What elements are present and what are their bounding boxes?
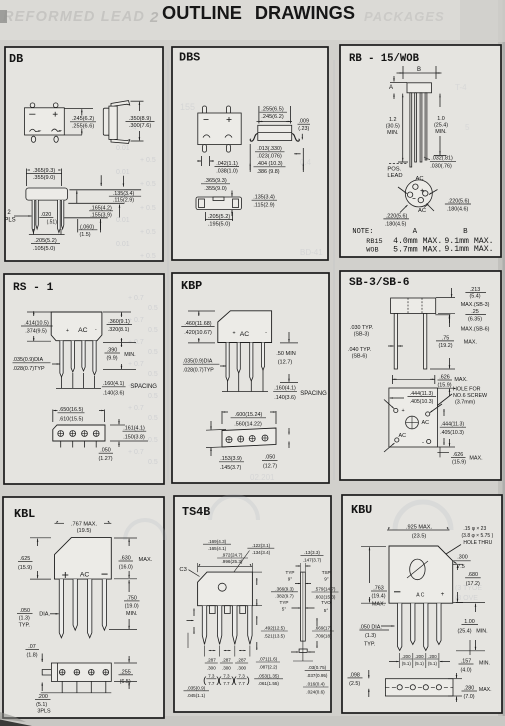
KBL .07 arrows bbox=[41, 654, 43, 663]
DB front line lower extension bbox=[64, 217, 108, 219]
svg-text:-: - bbox=[265, 330, 267, 336]
svg-text:(3.8 φ × 5.75 ): (3.8 φ × 5.75 ) bbox=[462, 533, 494, 539]
TS4B .13 dim arrows bbox=[296, 565, 301, 567]
svg-text:0.5: 0.5 bbox=[148, 437, 158, 444]
svg-text:(6.35): (6.35) bbox=[468, 316, 482, 322]
DB top view plus mark bbox=[53, 113, 58, 115]
svg-text:.460(11.68): .460(11.68) bbox=[184, 321, 211, 327]
svg-text:0.5: 0.5 bbox=[148, 327, 158, 334]
svg-text:0.5: 0.5 bbox=[148, 305, 158, 312]
svg-text:.405(10.3): .405(10.3) bbox=[410, 399, 434, 405]
svg-text:): ) bbox=[247, 675, 250, 686]
svg-text:(17.2): (17.2) bbox=[466, 581, 480, 587]
SB .75 dim arrows bbox=[449, 314, 451, 327]
DB dim (.060) leader lines bbox=[77, 219, 79, 232]
DB top view minus mark bbox=[29, 113, 35, 115]
svg-text:2: 2 bbox=[149, 9, 159, 26]
RS1 bottom view body bbox=[53, 425, 105, 441]
svg-text:NO.6 SCREW: NO.6 SCREW bbox=[453, 393, 488, 399]
DB front dim ticks bbox=[26, 169, 28, 187]
RB body bbox=[407, 83, 432, 93]
svg-text:.087(2.2): .087(2.2) bbox=[259, 664, 278, 669]
svg-text:(5.1): (5.1) bbox=[415, 661, 425, 666]
svg-text:.145(3.7): .145(3.7) bbox=[220, 465, 242, 471]
svg-text:0.01: 0.01 bbox=[116, 169, 130, 176]
svg-text:7.3: 7.3 bbox=[208, 673, 215, 678]
svg-text:(4.0): (4.0) bbox=[460, 667, 471, 673]
svg-text:A: A bbox=[413, 228, 418, 236]
svg-text:.150(3.8): .150(3.8) bbox=[123, 434, 145, 440]
KBP body bbox=[218, 311, 272, 343]
RS1 bottom view holes bbox=[58, 431, 64, 437]
box DBS bbox=[172, 47, 328, 260]
KBU .280 arrows bbox=[456, 673, 458, 678]
RS1 bottom view lead ticks bbox=[60, 441, 62, 448]
svg-text:7.7: 7.7 bbox=[223, 681, 230, 686]
RS1 bottom dim line bbox=[52, 410, 54, 423]
KBU bottom bar center dashed line bbox=[385, 686, 453, 688]
TS4B bar upper arrows bbox=[295, 583, 300, 585]
svg-text:7.5: 7.5 bbox=[457, 564, 465, 570]
TS4B body bbox=[198, 572, 253, 606]
svg-text:.625: .625 bbox=[20, 556, 31, 562]
SB plan view center hole bbox=[406, 416, 419, 429]
svg-text:AC: AC bbox=[422, 420, 430, 426]
KBU leads bbox=[398, 603, 402, 650]
svg-text:.205(5.2): .205(5.2) bbox=[34, 238, 57, 244]
svg-text:.195(5.0): .195(5.0) bbox=[208, 222, 231, 228]
DB front view body bbox=[26, 188, 68, 200]
svg-text:0.5: 0.5 bbox=[148, 415, 158, 422]
svg-text:.750: .750 bbox=[126, 595, 137, 601]
TS4B lead shoulder tabs bbox=[210, 606, 216, 614]
svg-text:+ 0.5: + 0.5 bbox=[140, 205, 156, 212]
svg-text:.050: .050 bbox=[265, 455, 276, 461]
DB dim .245(6.2)/.255(6.6) extension lines bbox=[64, 108, 93, 110]
TS4B bar mid arrows bbox=[292, 607, 301, 609]
svg-text:MIN.: MIN. bbox=[387, 130, 398, 136]
KBL .750 dim arrows bbox=[128, 580, 130, 592]
svg-text:HOLE FOR: HOLE FOR bbox=[453, 387, 481, 393]
svg-text:.037(0.95): .037(0.95) bbox=[307, 673, 328, 678]
svg-text:(15.9): (15.9) bbox=[437, 382, 451, 388]
KBL left dim arrows bbox=[37, 539, 39, 546]
RB dim 1.2(30.5)MIN arrows bbox=[402, 94, 404, 162]
svg-text:REFORMED LEAD: REFORMED LEAD bbox=[3, 9, 145, 25]
svg-text:.521(13.5): .521(13.5) bbox=[264, 634, 285, 639]
SB body SB-6 dim arrow bbox=[448, 315, 450, 323]
svg-text:.135(3.4): .135(3.4) bbox=[253, 195, 275, 201]
svg-text:.050 DIA.: .050 DIA. bbox=[359, 624, 381, 630]
DBS dim arrow .135 bbox=[231, 191, 233, 197]
RB dim 1.0(25.4)MIN arrows bbox=[439, 94, 441, 107]
svg-text:+: + bbox=[402, 408, 405, 414]
svg-text:9°: 9° bbox=[288, 577, 293, 582]
RB bottom view circle bbox=[405, 180, 432, 207]
svg-text:SPACING: SPACING bbox=[300, 391, 327, 397]
svg-text:.050: .050 bbox=[100, 448, 111, 454]
TS4B hole leader bbox=[225, 551, 250, 586]
svg-text:.669(17): .669(17) bbox=[314, 626, 332, 631]
svg-text:PACKAGES: PACKAGES bbox=[364, 9, 445, 24]
svg-text:.382(9.7): .382(9.7) bbox=[275, 593, 294, 598]
svg-text:+ 0.7: + 0.7 bbox=[128, 317, 144, 324]
svg-text:0.5: 0.5 bbox=[148, 393, 158, 400]
TS4B body hole bbox=[218, 583, 226, 591]
svg-text:.134(3.4): .134(3.4) bbox=[252, 550, 271, 555]
DBS top view pin lower-right bbox=[227, 145, 231, 153]
TS4B bar bottom arrows bbox=[291, 651, 298, 653]
svg-text:+ 0.7: + 0.7 bbox=[128, 295, 144, 302]
svg-text:+: + bbox=[441, 591, 445, 598]
svg-text:1.0: 1.0 bbox=[437, 116, 445, 122]
svg-text:LEAD: LEAD bbox=[387, 173, 402, 179]
svg-text:MIN.: MIN. bbox=[476, 629, 487, 635]
svg-text:(1.3): (1.3) bbox=[365, 633, 376, 639]
svg-text:.220(5.6): .220(5.6) bbox=[386, 213, 408, 219]
svg-text:.016(0.4): .016(0.4) bbox=[306, 682, 325, 687]
svg-text:.071(1.6): .071(1.6) bbox=[259, 657, 278, 662]
DB side view top lead bbox=[111, 101, 130, 107]
svg-text:MAX.: MAX. bbox=[372, 601, 385, 607]
SB side view body bbox=[391, 298, 436, 314]
DB top view pin lower-right bbox=[54, 136, 58, 142]
SB plan top dim line bbox=[392, 378, 435, 380]
svg-text:.140(3.6): .140(3.6) bbox=[103, 390, 125, 396]
KBL .255 arrows bbox=[128, 656, 130, 662]
svg-text:.245(6.2): .245(6.2) bbox=[261, 114, 284, 120]
svg-text:.028(0.7)TYP: .028(0.7)TYP bbox=[13, 366, 45, 372]
svg-text:0.4: 0.4 bbox=[300, 158, 312, 167]
svg-text:POS.: POS. bbox=[387, 167, 401, 173]
svg-text:TYP.: TYP. bbox=[364, 641, 375, 647]
svg-text:TYP: TYP bbox=[286, 570, 295, 575]
svg-text:+: + bbox=[232, 331, 235, 337]
RB leads bbox=[410, 93, 412, 167]
DBS top view pin upper-left bbox=[203, 106, 207, 114]
KBU lead ext ticks bbox=[399, 653, 401, 668]
KBL body plus mark bbox=[62, 574, 68, 576]
DB top view pin upper-left bbox=[30, 103, 35, 108]
KBP spacing ticks bbox=[227, 381, 229, 392]
RB dim A arrows bbox=[393, 76, 395, 82]
RS1 body bbox=[51, 312, 102, 341]
KBU bottom view bar bbox=[385, 679, 453, 696]
svg-text:(25.4): (25.4) bbox=[457, 629, 471, 635]
RS1 dim .390 arrows bbox=[121, 343, 123, 347]
svg-text:0.5: 0.5 bbox=[148, 459, 158, 466]
svg-text:WOB: WOB bbox=[366, 246, 378, 254]
svg-text:.350(8.9): .350(8.9) bbox=[129, 116, 152, 122]
TS4B lead spacing dim lines bbox=[209, 650, 216, 652]
svg-text:(30.5): (30.5) bbox=[386, 124, 400, 130]
svg-text:.160(4.1): .160(4.1) bbox=[103, 381, 125, 387]
svg-text:.028(0.7)TYP: .028(0.7)TYP bbox=[183, 368, 214, 374]
svg-text:.013(.330): .013(.330) bbox=[257, 146, 282, 152]
DBS dim .042 ticks and arrows bbox=[201, 156, 203, 166]
DB front right arrow down 1 bbox=[100, 175, 102, 186]
svg-text:.200: .200 bbox=[37, 694, 48, 700]
svg-text:5°: 5° bbox=[282, 607, 287, 612]
DBS dim .404 left ext bbox=[249, 144, 251, 172]
DBS top view body bbox=[198, 113, 241, 145]
svg-text:KBL: KBL bbox=[14, 507, 35, 521]
svg-text:.300(7.6): .300(7.6) bbox=[129, 123, 152, 129]
svg-text:.030(.76): .030(.76) bbox=[430, 164, 452, 170]
svg-text:MAX.(SB-3): MAX.(SB-3) bbox=[461, 302, 490, 308]
DBS top view minus mark bbox=[204, 119, 209, 121]
svg-text:.972(24.7): .972(24.7) bbox=[222, 553, 243, 558]
svg-text:NOTE:: NOTE: bbox=[352, 228, 373, 236]
svg-text:+ 0.7: + 0.7 bbox=[128, 361, 144, 368]
svg-text:.035(0.9)DIA: .035(0.9)DIA bbox=[13, 357, 44, 363]
svg-text:.365(9.3): .365(9.3) bbox=[204, 178, 227, 184]
KBU 1.00 arrows bbox=[475, 604, 477, 612]
svg-text:.15 φ × 23: .15 φ × 23 bbox=[463, 526, 486, 532]
svg-text:MAX.: MAX. bbox=[139, 557, 153, 563]
svg-text:.630: .630 bbox=[120, 556, 131, 562]
KBU .680 arrows bbox=[457, 565, 459, 570]
KBU left dim arrows bbox=[369, 547, 371, 556]
svg-text:OUTLINE DRAWINGS: OUTLINE DRAWINGS bbox=[162, 3, 355, 23]
svg-text:.560(14.22): .560(14.22) bbox=[234, 421, 262, 427]
DB top view polarity squiggle left bbox=[30, 129, 41, 131]
svg-text:+ 0.5: + 0.5 bbox=[140, 157, 156, 164]
svg-text:.300: .300 bbox=[237, 665, 246, 670]
SB plan view body bbox=[389, 388, 438, 447]
svg-text:9.1mm MAX.: 9.1mm MAX. bbox=[444, 245, 493, 254]
svg-text:155: 155 bbox=[180, 102, 195, 112]
svg-text:(1.3): (1.3) bbox=[19, 616, 30, 622]
svg-text:MIN.: MIN. bbox=[126, 611, 137, 617]
SB right dim arrows bbox=[443, 409, 445, 416]
svg-text:.115(2.9): .115(2.9) bbox=[253, 202, 274, 208]
RS1 dim left arrows bbox=[33, 311, 35, 316]
svg-text:.255(6.6): .255(6.6) bbox=[72, 123, 95, 129]
RS1 dim right arrows top bbox=[121, 312, 123, 317]
svg-text:(5.4): (5.4) bbox=[469, 294, 480, 300]
svg-text:(23.5): (23.5) bbox=[412, 533, 427, 539]
svg-text:3PLS: 3PLS bbox=[37, 709, 51, 715]
svg-text:.374(9.5): .374(9.5) bbox=[25, 329, 47, 335]
DB front view pin pair right bbox=[58, 200, 61, 233]
svg-text:.032(.81): .032(.81) bbox=[431, 156, 453, 162]
svg-text:MIN.: MIN. bbox=[124, 352, 135, 358]
DBS side view right curl lead bbox=[292, 134, 300, 142]
svg-text:(12.7): (12.7) bbox=[278, 359, 293, 365]
ghost dark mark top-left bbox=[0, 10, 7, 23]
KBL body minus mark bbox=[102, 573, 108, 575]
TS4B left small arrows bbox=[193, 609, 195, 617]
svg-text:.650(16.5): .650(16.5) bbox=[59, 407, 84, 413]
svg-text:.13(3.3): .13(3.3) bbox=[304, 550, 320, 555]
RB bottom view plus mark bbox=[421, 190, 425, 192]
RB bottom view arrows pointing at pins bbox=[398, 187, 407, 194]
KBL body bbox=[55, 538, 112, 580]
svg-text:SB-3/SB-6: SB-3/SB-6 bbox=[349, 277, 410, 289]
SB side view hidden hole dashed lines bbox=[407, 298, 409, 314]
KBU body minus mark bbox=[394, 591, 400, 593]
svg-text:.020: .020 bbox=[41, 212, 52, 218]
svg-text:(15.9): (15.9) bbox=[452, 460, 466, 466]
svg-text:.602(15.3): .602(15.3) bbox=[315, 594, 336, 599]
svg-text:.300: .300 bbox=[207, 665, 216, 670]
svg-text:C3: C3 bbox=[179, 567, 186, 573]
svg-text:7.7: 7.7 bbox=[208, 681, 215, 686]
svg-text:.03(0.75): .03(0.75) bbox=[308, 665, 327, 670]
KBL bottom spacing line bbox=[41, 692, 112, 694]
DB front line body-top extension bbox=[69, 189, 141, 191]
svg-text:MIN.: MIN. bbox=[435, 129, 446, 135]
svg-text:(SB-6): (SB-6) bbox=[352, 353, 368, 359]
svg-text:(.23): (.23) bbox=[298, 126, 309, 132]
svg-text:.165(4.1): .165(4.1) bbox=[208, 546, 227, 551]
svg-text:.355(9.0): .355(9.0) bbox=[33, 175, 56, 181]
KBP bottom dim line bbox=[221, 411, 223, 424]
svg-text:.040 TYP.: .040 TYP. bbox=[348, 347, 371, 353]
SB body top dim arrows bbox=[451, 288, 453, 297]
svg-text:RB - 15/WOB: RB - 15/WOB bbox=[349, 53, 420, 65]
svg-text:.300: .300 bbox=[222, 665, 231, 670]
svg-text:MIN.: MIN. bbox=[479, 660, 490, 666]
svg-text:.161(4.1): .161(4.1) bbox=[123, 426, 145, 432]
svg-text:+ 0.5: + 0.5 bbox=[140, 253, 156, 260]
svg-text:.287: .287 bbox=[237, 658, 246, 663]
DB dim .245(6.2)/.255(6.6) arrows bbox=[81, 109, 83, 115]
svg-text:(8 OVE: (8 OVE bbox=[455, 595, 478, 602]
svg-text:9°: 9° bbox=[324, 577, 329, 582]
svg-text:TYP.: TYP. bbox=[19, 623, 30, 629]
RB bottom view pin circles bbox=[413, 184, 418, 189]
svg-text:(2.5): (2.5) bbox=[349, 681, 360, 687]
svg-text:0.5: 0.5 bbox=[148, 349, 158, 356]
svg-text:.098: .098 bbox=[349, 672, 360, 678]
SB hole leader arrow bbox=[420, 394, 452, 419]
svg-text:.245(6.2): .245(6.2) bbox=[72, 116, 95, 122]
svg-text:7.7: 7.7 bbox=[238, 681, 245, 686]
svg-text:.404 (10.3): .404 (10.3) bbox=[256, 161, 282, 167]
svg-text:TYP: TYP bbox=[280, 600, 289, 605]
svg-text:.492(12.5): .492(12.5) bbox=[264, 626, 285, 631]
box DB bbox=[5, 47, 163, 261]
DB side dim extension lines bbox=[131, 100, 144, 102]
svg-text:AC: AC bbox=[240, 331, 250, 338]
SB plan corner leader arrows bbox=[384, 400, 394, 409]
svg-text:.042(1.1): .042(1.1) bbox=[216, 161, 238, 167]
svg-text:7.3: 7.3 bbox=[223, 673, 230, 678]
svg-text:(7.0): (7.0) bbox=[463, 694, 474, 700]
svg-text:RS - 1: RS - 1 bbox=[13, 282, 54, 294]
svg-text:TSP.: TSP. bbox=[322, 570, 332, 575]
box TS4B bbox=[174, 496, 331, 712]
svg-text:0.5: 0.5 bbox=[148, 371, 158, 378]
SB plan right height dim bbox=[449, 389, 451, 396]
svg-text:.50 MIN: .50 MIN bbox=[276, 351, 296, 357]
svg-text:.023(.076): .023(.076) bbox=[257, 153, 282, 159]
svg-text:.009: .009 bbox=[299, 119, 310, 125]
svg-text:.287: .287 bbox=[207, 658, 216, 663]
svg-text:.147(3.7): .147(3.7) bbox=[303, 558, 322, 563]
svg-text:.035(0.9): .035(0.9) bbox=[187, 685, 206, 690]
svg-text:.180(4.6): .180(4.6) bbox=[447, 206, 469, 212]
RB POS lead dashed leader bbox=[389, 162, 408, 164]
svg-text:AC: AC bbox=[418, 208, 426, 214]
svg-text:(5.1): (5.1) bbox=[36, 702, 47, 708]
RB bottom view minus mark bbox=[413, 198, 416, 200]
svg-text:5°: 5° bbox=[324, 608, 329, 613]
svg-text:TS4B: TS4B bbox=[182, 505, 210, 519]
svg-text:7.3: 7.3 bbox=[238, 673, 245, 678]
svg-text:MAX.: MAX. bbox=[464, 340, 477, 346]
svg-text:(5.1): (5.1) bbox=[428, 661, 438, 666]
svg-text:.414(10.5): .414(10.5) bbox=[24, 320, 49, 326]
KBL bottom hole ticks bbox=[61, 681, 63, 692]
svg-text:.75: .75 bbox=[442, 335, 450, 341]
svg-text:-: - bbox=[422, 440, 424, 446]
DBS top view squiggle left bbox=[203, 135, 210, 138]
DB top view pin upper-right bbox=[53, 103, 58, 108]
svg-text:+ 0.5: + 0.5 bbox=[140, 181, 156, 188]
box KBL bbox=[3, 497, 164, 718]
TS4B side view bar bbox=[301, 572, 306, 641]
svg-text:.220(5.6): .220(5.6) bbox=[448, 198, 470, 204]
DBS top view pin lower-left bbox=[203, 145, 207, 153]
svg-text:.035(0.9)DIA: .035(0.9)DIA bbox=[183, 359, 213, 365]
svg-text:DIA.: DIA. bbox=[39, 612, 50, 618]
svg-text:.038(1.0): .038(1.0) bbox=[216, 169, 238, 175]
KBP .50 MIN arrows bbox=[288, 332, 290, 342]
box RS1 bbox=[4, 274, 164, 484]
svg-text:0.01: 0.01 bbox=[116, 217, 130, 224]
KBU .098 arrows bbox=[368, 670, 370, 678]
svg-text:(9.9): (9.9) bbox=[106, 355, 117, 361]
svg-text:02.201: 02.201 bbox=[250, 473, 275, 482]
SB lead thickness arrows bbox=[388, 345, 394, 347]
svg-text:.996(25.3): .996(25.3) bbox=[222, 559, 243, 564]
svg-text:.626: .626 bbox=[439, 374, 450, 380]
svg-text:(1.8): (1.8) bbox=[26, 652, 37, 658]
svg-text:.763: .763 bbox=[373, 586, 384, 592]
svg-text:AC: AC bbox=[78, 327, 88, 334]
SB side view leads bbox=[394, 314, 397, 370]
svg-text:.200: .200 bbox=[428, 654, 437, 659]
svg-text:AC: AC bbox=[80, 572, 90, 579]
svg-text:(3.7mm): (3.7mm) bbox=[455, 399, 475, 405]
svg-text:(19.2): (19.2) bbox=[438, 343, 452, 349]
KBL right dim arrows bbox=[128, 539, 130, 546]
svg-text:.320(8.1): .320(8.1) bbox=[108, 327, 130, 333]
TS4B leads bbox=[202, 606, 206, 645]
DB side view bottom lead bbox=[111, 139, 130, 143]
DBS top view pin upper-right bbox=[227, 106, 231, 114]
svg-text:.122(3.1): .122(3.1) bbox=[252, 543, 271, 548]
box KBP bbox=[172, 273, 329, 483]
svg-text:B: B bbox=[463, 228, 468, 236]
svg-text:(19.0): (19.0) bbox=[125, 603, 139, 609]
svg-text:.169(4.3): .169(4.3) bbox=[208, 539, 227, 544]
svg-text:(1.27): (1.27) bbox=[98, 456, 112, 462]
svg-text:HOLE THRU: HOLE THRU bbox=[463, 540, 492, 546]
svg-text:(19.4): (19.4) bbox=[371, 594, 385, 600]
svg-text:.300: .300 bbox=[457, 555, 468, 561]
svg-text:MAX.: MAX. bbox=[469, 455, 482, 461]
TS4B right body arrows bbox=[256, 578, 258, 585]
box SB bbox=[340, 271, 501, 480]
svg-text:DBS: DBS bbox=[179, 51, 200, 65]
svg-text:.200: .200 bbox=[402, 654, 411, 659]
svg-text:.444(11.3): .444(11.3) bbox=[410, 391, 434, 397]
svg-text:.405(10.3): .405(10.3) bbox=[440, 430, 464, 436]
